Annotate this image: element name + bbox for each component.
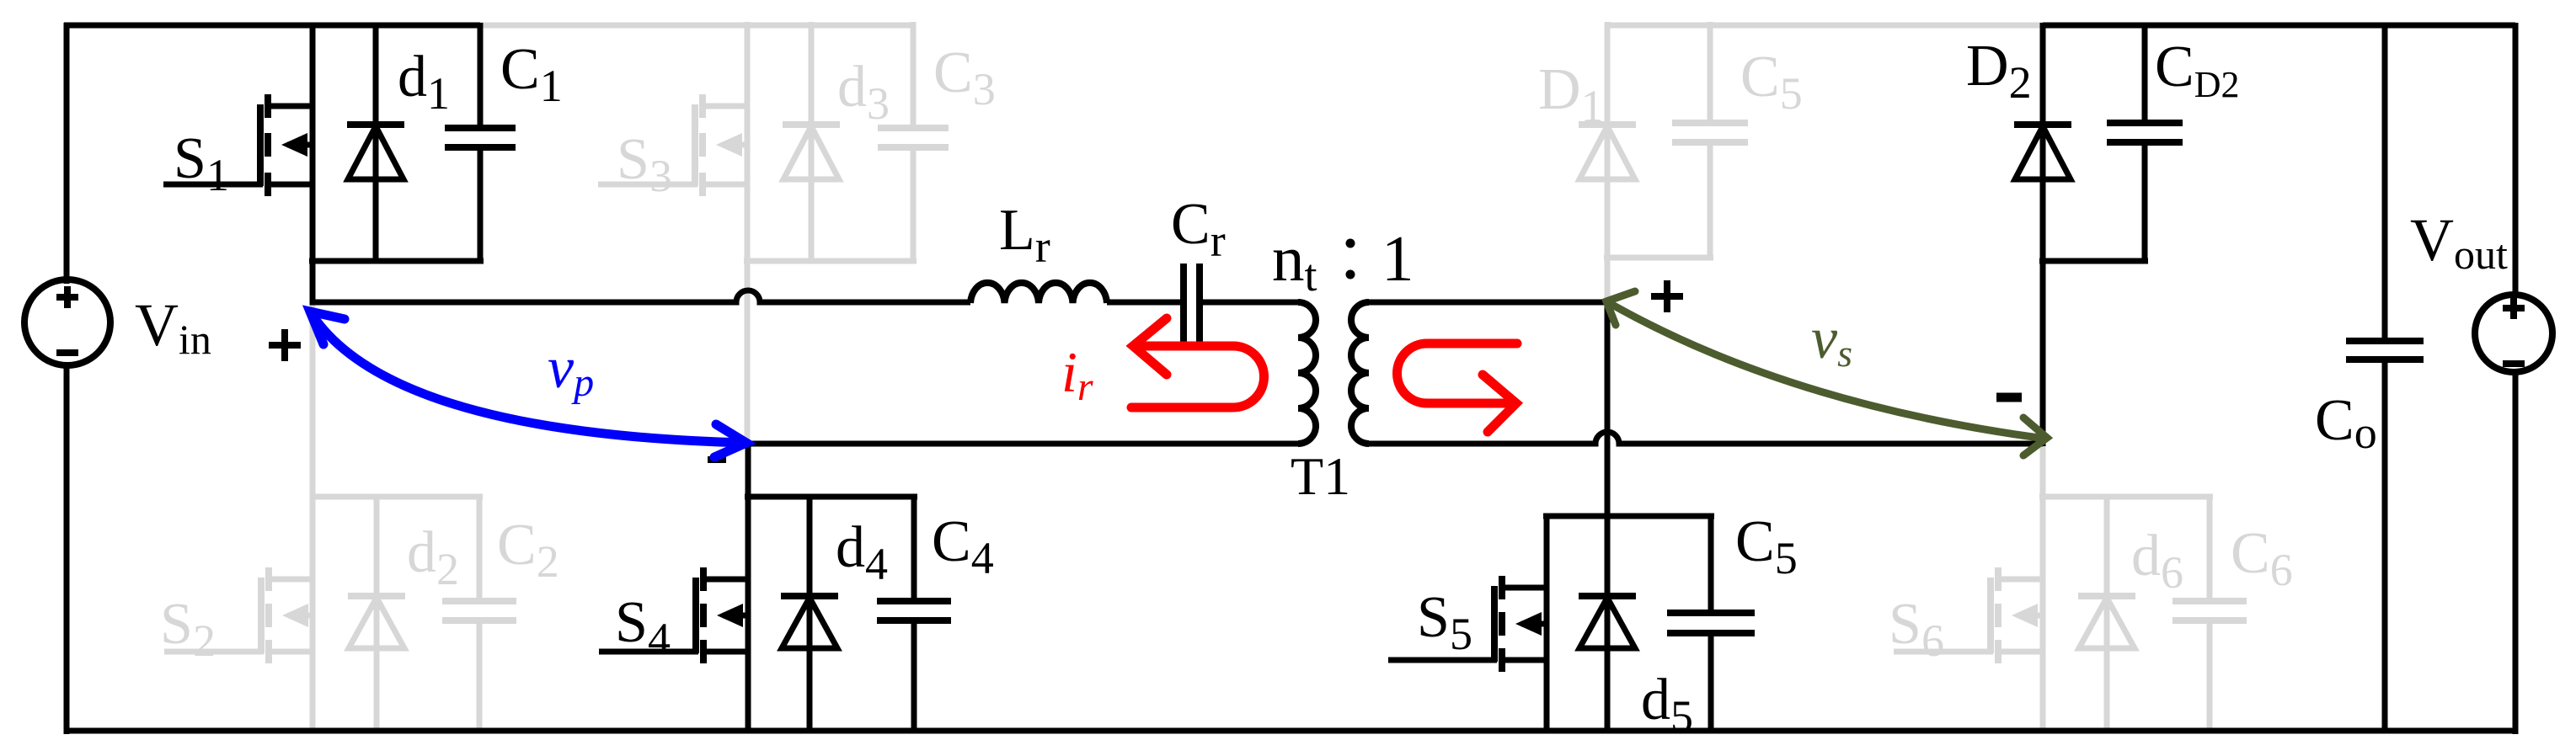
svg-text:C3: C3 bbox=[933, 40, 996, 114]
diode d2 bbox=[348, 596, 405, 648]
svg-text:Co: Co bbox=[2315, 388, 2377, 458]
capacitor Co bbox=[2346, 341, 2424, 359]
arrow ir secondary head bbox=[1483, 375, 1516, 432]
svg-text:C5: C5 bbox=[1740, 45, 1803, 119]
wire bottom rail bbox=[64, 728, 2518, 734]
wire d4 branch bbox=[807, 497, 813, 731]
svg-text:nt: nt bbox=[1272, 222, 1317, 301]
wire D2 branch down to secondary minus node bbox=[2040, 23, 2046, 446]
voltage source Vout bbox=[2475, 295, 2552, 372]
diode d1 bbox=[347, 125, 404, 179]
svg-text:d3: d3 bbox=[837, 55, 890, 129]
wire D1 branch down to secondary node bbox=[1605, 22, 1611, 302]
wire d1 branch bbox=[373, 23, 379, 261]
node plus mark (secondary) bbox=[1651, 280, 1683, 312]
svg-text:CD2: CD2 bbox=[2155, 35, 2239, 105]
capacitor CD2 bbox=[2107, 123, 2183, 142]
wire C2 top branch bbox=[477, 497, 483, 598]
svg-text:C6: C6 bbox=[2231, 521, 2293, 595]
wire gray top rail (S3 leg segment) bbox=[480, 23, 912, 29]
arrow vs head (plus end) bbox=[1606, 291, 1635, 325]
node minus mark (secondary) bbox=[1996, 393, 2022, 402]
wire D1-C5 group bottom rail bbox=[1604, 255, 1713, 261]
wire C4 top branch bbox=[911, 497, 917, 598]
diode D1 bbox=[1579, 125, 1636, 179]
voltage source Vin bbox=[24, 280, 110, 365]
wire Co bottom branch bbox=[2382, 363, 2388, 731]
wire C6 top branch bbox=[2207, 497, 2213, 598]
svg-text:Vin: Vin bbox=[135, 291, 211, 363]
arrow vs curve bbox=[1606, 301, 2045, 439]
diode d6 bbox=[2078, 596, 2135, 648]
wire wire primary bottom (node to transformer) bbox=[748, 441, 1301, 447]
wire C5 top branch bbox=[1708, 22, 1713, 120]
arrow vp head (node end) bbox=[310, 311, 345, 344]
capacitor Cr bbox=[1184, 264, 1200, 343]
wire d6 branch bbox=[2104, 497, 2110, 731]
svg-text:C5: C5 bbox=[1735, 509, 1798, 583]
wire left edge wire upper bbox=[64, 23, 70, 284]
capacitor C2 bbox=[442, 601, 516, 620]
svg-text:vp: vp bbox=[548, 336, 594, 405]
label colon of turns ratio bbox=[1346, 239, 1355, 280]
wire S6 group top rail bbox=[2039, 494, 2213, 500]
wire CD2 bottom branch bbox=[2142, 146, 2148, 261]
transistor S1 (MOSFET symbol) bbox=[163, 94, 313, 196]
svg-text:d6: d6 bbox=[2131, 524, 2183, 598]
wire S4 group top rail bbox=[745, 494, 917, 500]
svg-text:d4: d4 bbox=[836, 515, 888, 589]
diode D2 bbox=[2014, 125, 2071, 179]
capacitor C5 top bbox=[1672, 123, 1748, 142]
wire gray top rail (D1 segment) bbox=[1607, 23, 2043, 29]
svg-text:C1: C1 bbox=[500, 37, 563, 111]
wire S5 group top rail bbox=[1543, 514, 1714, 519]
transistor S5 (MOSFET symbol) bbox=[1388, 576, 1547, 672]
wire C3 top branch bbox=[911, 22, 917, 125]
wire d2 branch bbox=[374, 497, 380, 731]
svg-text:ir: ir bbox=[1061, 340, 1093, 409]
wire C5 bottom branch bbox=[1708, 636, 1714, 731]
svg-text:S3: S3 bbox=[617, 127, 672, 201]
wire S3 group bottom rail bbox=[744, 258, 917, 264]
capacitor C5 bottom group bbox=[1667, 613, 1755, 633]
diode d4 bbox=[781, 596, 838, 648]
wire S6 drain-source bus bbox=[2040, 444, 2046, 731]
arrow ir primary head bbox=[1133, 318, 1167, 375]
wire CD2 top branch bbox=[2142, 23, 2148, 120]
wire C3 bottom branch bbox=[911, 151, 917, 261]
transistor S3 (MOSFET symbol) bbox=[598, 94, 747, 196]
svg-text:Cr: Cr bbox=[1171, 192, 1226, 266]
svg-text:S1: S1 bbox=[174, 126, 229, 200]
svg-text:d2: d2 bbox=[407, 520, 459, 594]
wire top rail left (Vin to C1) bbox=[64, 23, 480, 29]
diode d3 bbox=[783, 125, 840, 179]
wire primary top (node to Lr) with hop bbox=[310, 290, 971, 302]
transformer T1 primary winding bbox=[1298, 302, 1316, 444]
wire right edge wire upper bbox=[2513, 23, 2519, 295]
wire wire secondary top (transformer to node) bbox=[1369, 300, 1607, 306]
wire C2 bottom branch bbox=[477, 624, 483, 731]
wire S1 group bottom rail bbox=[309, 258, 484, 264]
svg-text:C2: C2 bbox=[497, 513, 559, 587]
wire C4 bottom branch bbox=[911, 624, 917, 731]
wire wire Lr to Cr bbox=[1107, 300, 1180, 306]
arrow vp head (minus end) bbox=[714, 424, 746, 457]
wire d3 branch bbox=[809, 22, 815, 261]
inductor Lr bbox=[970, 283, 1107, 303]
svg-text:S2: S2 bbox=[160, 592, 216, 666]
wire S2 group top rail bbox=[310, 494, 483, 500]
svg-text:D2: D2 bbox=[1966, 34, 2032, 108]
wire C1 bottom branch bbox=[478, 151, 484, 261]
wire wire Cr to transformer bbox=[1203, 300, 1301, 306]
arrow ir primary circulating bbox=[1131, 346, 1264, 407]
svg-text:C4: C4 bbox=[932, 509, 994, 583]
capacitor C3 bbox=[878, 128, 949, 147]
wire S2 drain-source bus bbox=[310, 302, 316, 731]
node minus mark (primary) bbox=[708, 456, 726, 463]
svg-text:vs: vs bbox=[1811, 306, 1852, 375]
wire right edge wire lower bbox=[2513, 372, 2519, 734]
wire C5 top branch bbox=[1708, 516, 1714, 610]
svg-text:d1: d1 bbox=[398, 45, 450, 119]
svg-text:S5: S5 bbox=[1417, 585, 1472, 659]
arrow vs head (minus end) bbox=[2023, 418, 2047, 455]
wire C6 bottom branch bbox=[2207, 624, 2213, 731]
wire S4 drain-source bus bbox=[746, 497, 751, 731]
wire S1 drain-source bus bbox=[310, 23, 316, 302]
svg-text:T1: T1 bbox=[1291, 446, 1350, 506]
wire secondary bottom with hop bbox=[1369, 432, 2043, 444]
capacitor C4 bbox=[877, 601, 951, 620]
arrow ir secondary circulating bbox=[1397, 343, 1517, 403]
wire Co top branch bbox=[2382, 23, 2388, 338]
wire top rail right (D2 to Vout) bbox=[2043, 23, 2515, 29]
transformer T1 secondary winding bbox=[1351, 302, 1369, 444]
transistor S4 (MOSFET symbol) bbox=[599, 567, 748, 663]
arrow vp curve bbox=[310, 311, 746, 443]
svg-text:d5: d5 bbox=[1641, 668, 1693, 742]
wire C1 top branch bbox=[478, 23, 484, 125]
wire C5 bottom branch bbox=[1708, 146, 1713, 258]
wire left edge wire lower bbox=[64, 362, 70, 734]
capacitor C1 bbox=[445, 128, 516, 147]
wire wire primary minus node down to S4 bbox=[746, 440, 751, 497]
transistor S2 (MOSFET symbol) bbox=[164, 567, 313, 663]
svg-text:Lr: Lr bbox=[999, 198, 1050, 272]
svg-text:Vout: Vout bbox=[2410, 206, 2508, 278]
svg-text:S6: S6 bbox=[1889, 592, 1944, 666]
transistor S6 (MOSFET symbol) bbox=[1894, 567, 2043, 663]
wire S3 drain-source bus bbox=[745, 22, 751, 444]
node plus mark (primary) bbox=[269, 329, 301, 361]
wire S5 drain-source bus bbox=[1544, 516, 1550, 731]
svg-text:S4: S4 bbox=[615, 590, 671, 664]
svg-text:1: 1 bbox=[1382, 222, 1414, 295]
svg-text:D1: D1 bbox=[1538, 57, 1604, 131]
capacitor C6 bbox=[2172, 601, 2247, 620]
wire D2-CD2 group bottom rail bbox=[2039, 258, 2148, 264]
wire d5 branch from secondary plus node bbox=[1605, 299, 1611, 731]
diode d5 bbox=[1579, 596, 1636, 648]
